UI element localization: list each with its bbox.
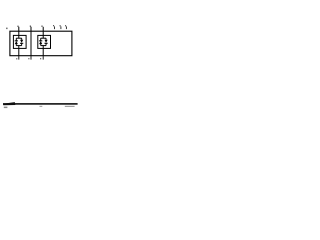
ESD cell box 1 [13,35,26,48]
wire cell2 left leg lower [40,44,42,46]
wire cell1 left leg lower [15,44,17,46]
wire cell1 left leg upper [15,38,17,41]
pin 6 number label [65,25,66,26]
pin 3 number label [42,26,43,27]
cell 2 top bus wire [41,37,46,39]
wire cell1 to ground rail [18,48,20,56]
diode D3 (up) triangle [39,41,42,44]
wire cell2 left leg upper [40,38,42,41]
cell 1 top bus wire [16,37,21,39]
pin 3 stub wire [42,27,44,31]
wire cell2 right leg lower [45,43,47,45]
IC outline U1 [10,31,72,56]
wire cell1 right leg upper [21,38,23,40]
wire cell1 right leg lower [21,43,23,45]
cell 1 bottom bus wire [16,45,21,47]
pin 4 stub [54,26,56,29]
pin 5 number label [60,25,61,26]
pin 1 bottom number label [16,58,17,59]
diode D1 (up) triangle [15,41,18,44]
footer rule [3,103,78,105]
pin 4 number label [53,25,54,26]
pin 1 bottom stub wire [18,56,20,60]
footer text left [4,107,8,109]
ESD cell box 2 [38,35,51,48]
pin 3 bottom stub wire [42,56,44,60]
pin 1 stub wire [18,27,20,31]
diode D2 (down) triangle [20,40,23,43]
wire cell2 right leg upper [45,38,47,40]
pin 2 wire (vertical through package to ground rail) [30,27,32,56]
footer text center [40,106,43,107]
wire cell2 center to box bottom [42,46,44,49]
diode D4 (down) cathode bar [44,42,47,44]
wire pin3 to cell 2 [42,31,44,38]
diode D4 (down) triangle [44,40,47,43]
diode D1 (up) cathode bar [15,40,18,42]
pin 2 bottom number label [28,58,29,59]
pin 3 bottom number label [40,58,41,59]
pin 1 number label [18,26,19,27]
diode D2 (down) cathode bar [20,42,23,44]
pin 2 bottom stub wire [30,56,32,60]
diode D3 (up) cathode bar [39,40,42,42]
cell 2 bottom bus wire [41,45,46,47]
wire cell1 center to box bottom [18,46,20,49]
pin 6 stub [65,26,67,29]
pin 5 stub [60,26,62,29]
footer text right [65,106,75,107]
node A annotation (upper-left) [6,28,7,30]
wire cell2 to ground rail [42,48,44,56]
pin 2 number label [30,26,31,27]
wire pin1 to cell 1 [18,31,20,38]
footer logo [3,102,15,105]
